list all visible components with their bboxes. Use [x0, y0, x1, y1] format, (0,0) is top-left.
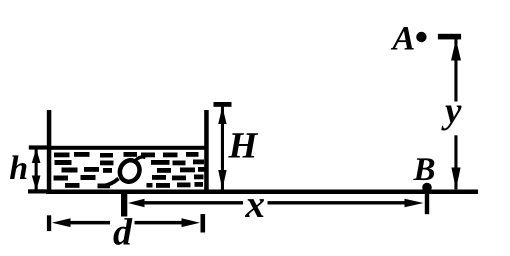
H dimension line [221, 105, 224, 190]
water dashes row 4 [54, 175, 204, 181]
h dimension up arrowhead [32, 149, 41, 164]
x dimension right arrowhead [405, 199, 424, 207]
h dimension line [35, 148, 38, 191]
H dimension T-bar [214, 102, 232, 107]
h dimension down arrowhead [32, 176, 41, 191]
point B dot [422, 183, 432, 193]
tank left wall [47, 110, 52, 194]
ground line [46, 190, 478, 195]
point O label [105, 157, 146, 186]
svg-text:h: h [9, 150, 28, 187]
y dimension down arrowhead [451, 168, 460, 190]
H dimension up arrowhead [218, 107, 226, 125]
h dimension top T-bar [29, 145, 52, 149]
d dimension line left segment [62, 221, 110, 225]
y dimension up arrowhead [451, 39, 461, 60]
water dashes row 2 [55, 160, 205, 166]
x dimension line left segment [138, 201, 243, 204]
svg-text:H: H [227, 125, 258, 166]
tank right wall [204, 110, 209, 194]
water dashes row 3 [62, 167, 205, 173]
d dimension left arrowhead [52, 218, 71, 227]
svg-text:y: y [441, 90, 462, 131]
y dimension line lower segment [454, 135, 457, 189]
svg-text:x: x [244, 183, 265, 226]
x dimension right tick [425, 192, 429, 214]
water surface line [51, 146, 205, 150]
x dimension left tick [121, 190, 127, 217]
water dashes row 5 [65, 182, 203, 188]
H dimension down arrowhead [218, 170, 226, 190]
svg-text:A: A [390, 20, 415, 57]
x dimension left arrowhead [128, 199, 145, 207]
h dimension bottom T-bar [28, 189, 46, 193]
d dimension right arrowhead [182, 218, 201, 227]
point A dot [416, 32, 426, 42]
svg-text:B: B [412, 152, 435, 188]
d dimension right T-bar [201, 214, 206, 233]
water dashes row 1 [54, 152, 199, 158]
svg-text:d: d [113, 212, 133, 254]
y dimension line upper segment [454, 39, 457, 102]
d dimension left T-bar [47, 215, 51, 231]
y dimension T-bar [438, 34, 461, 40]
x dimension line right segment [268, 201, 407, 204]
d dimension line right segment [135, 221, 187, 225]
